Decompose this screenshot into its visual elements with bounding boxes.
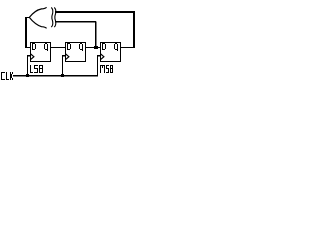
wire: clock stub FF2 xyxy=(62,55,66,56)
flip-flop U3 (middle) box xyxy=(65,42,86,62)
gate U1: XOR back arc (body) xyxy=(51,8,53,28)
node: CLK bus junction dot FF2 xyxy=(61,74,64,77)
wire: clock stub FF3 xyxy=(97,55,101,56)
node: junction dot at Q2 feedback tap xyxy=(94,46,98,49)
wire: inner feedback horizontal to XOR lower input xyxy=(55,21,96,22)
clock triangle of U4 (MSB) xyxy=(101,54,104,59)
node: CLK bus junction dot FF1 xyxy=(26,74,29,77)
flip-flop U2 (LSB) box xyxy=(30,42,51,62)
background xyxy=(0,0,158,95)
wire: clock riser FF1 xyxy=(27,55,28,76)
wire: CLK bus xyxy=(13,75,98,76)
wire: XOR output stub from tip xyxy=(25,17,30,18)
wire: clock riser FF2 xyxy=(62,55,63,76)
wire: Q3 output to right xyxy=(121,47,135,48)
wire: XOR output into D input of LSB xyxy=(25,47,31,48)
gate U1: XOR extra input arc xyxy=(54,8,56,28)
flip-flop U4 (MSB) box xyxy=(100,42,121,62)
wire: XOR output vertical down to D of LSB xyxy=(25,17,27,48)
label LSB xyxy=(30,65,43,73)
label MSB xyxy=(100,65,113,73)
wire: clock stub FF1 xyxy=(27,55,31,56)
clock triangle of U2 (LSB) xyxy=(31,54,34,59)
pin label Q of U4 (MSB) xyxy=(114,43,118,51)
pin label D of U3 (middle) xyxy=(67,43,71,50)
wire: outer feedback horizontal to XOR upper input xyxy=(55,11,135,13)
gate U1: XOR gate pointing left, body wings xyxy=(29,7,46,28)
wire: outer feedback vertical xyxy=(133,11,135,48)
pin label D of U4 (MSB) xyxy=(102,43,106,50)
label CLK xyxy=(1,72,13,80)
pin label Q of U2 (LSB) xyxy=(44,43,48,51)
wire: inner feedback vertical xyxy=(95,22,97,48)
pin label D of U2 (LSB) xyxy=(32,43,36,50)
wire: Q1 to D2 xyxy=(51,47,65,48)
clock triangle of U3 (middle) xyxy=(66,54,69,59)
wire: Q2 to D3 xyxy=(86,47,100,48)
pin label Q of U3 (middle) xyxy=(79,43,83,51)
wire: clock riser FF3 xyxy=(97,55,98,76)
